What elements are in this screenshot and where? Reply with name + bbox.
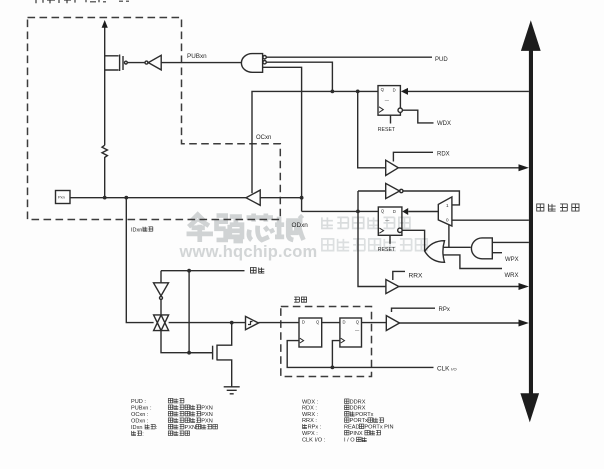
svg-text:PORTx: PORTx <box>350 418 368 424</box>
svg-text:WDX: WDX <box>437 121 451 127</box>
svg-text:IDxn: IDxn <box>131 228 142 234</box>
svg-text:Q: Q <box>381 87 385 92</box>
svg-text:WRX :: WRX : <box>302 412 319 418</box>
svg-text:Q: Q <box>356 319 360 324</box>
svg-text:IDxn: IDxn <box>131 425 143 431</box>
svg-text:RESET: RESET <box>378 127 396 133</box>
svg-text:0: 0 <box>446 218 449 223</box>
svg-text:I/O :: I/O : <box>315 438 326 444</box>
svg-text:PINX: PINX <box>350 431 363 437</box>
svg-text:PUBxn: PUBxn <box>187 53 207 60</box>
svg-text:PXN: PXN <box>201 412 213 418</box>
svg-text:PXN: PXN <box>185 425 197 431</box>
svg-text:CLK I/O: CLK I/O <box>437 365 457 372</box>
svg-text:—: — <box>385 98 390 103</box>
svg-text:RRX: RRX <box>409 272 424 279</box>
svg-text:PXN: PXN <box>201 418 213 424</box>
svg-text:DDRX: DDRX <box>350 406 366 412</box>
svg-text:RPx :: RPx : <box>308 425 322 431</box>
svg-text:ODxn :: ODxn : <box>131 418 149 424</box>
svg-text:WPX: WPX <box>505 257 519 263</box>
svg-text:RPx: RPx <box>439 307 450 313</box>
svg-text:PORTx: PORTx <box>355 412 373 418</box>
svg-text:WRX: WRX <box>505 273 519 279</box>
svg-text:READ: READ <box>344 425 360 431</box>
svg-text:I / O: I / O <box>344 438 355 444</box>
svg-text:RRX :: RRX : <box>302 418 317 424</box>
svg-text:PUD: PUD <box>435 57 448 63</box>
svg-text:OCxn: OCxn <box>256 135 271 141</box>
svg-text:Q: Q <box>316 319 320 324</box>
svg-text:WDX :: WDX : <box>302 399 319 405</box>
svg-text:Q: Q <box>381 208 385 213</box>
svg-text:PUD :: PUD : <box>131 399 146 405</box>
svg-text:RDX :: RDX : <box>302 406 317 412</box>
svg-text:RESET: RESET <box>378 247 396 253</box>
svg-text:WPX :: WPX : <box>302 431 318 437</box>
svg-text:PXN: PXN <box>201 405 213 411</box>
svg-text::: : <box>142 431 144 437</box>
svg-text:PORTx PIN: PORTx PIN <box>364 425 393 431</box>
svg-text:1: 1 <box>446 203 449 208</box>
svg-text:D: D <box>393 88 396 93</box>
svg-text:OCxn :: OCxn : <box>131 412 149 418</box>
svg-text::: : <box>156 425 158 431</box>
svg-text:PUBxn :: PUBxn : <box>131 405 152 411</box>
svg-text:D: D <box>343 319 346 324</box>
svg-text:ODxn: ODxn <box>292 222 309 229</box>
svg-text:Pxn: Pxn <box>58 195 65 200</box>
svg-text:CLK: CLK <box>302 438 313 444</box>
svg-text:D: D <box>302 319 305 324</box>
svg-text:D: D <box>393 209 396 214</box>
svg-text:DDRX: DDRX <box>350 399 366 405</box>
svg-text:RDX: RDX <box>437 151 450 157</box>
svg-text:—: — <box>355 328 360 333</box>
svg-text:www.hqchip.com: www.hqchip.com <box>179 243 318 261</box>
